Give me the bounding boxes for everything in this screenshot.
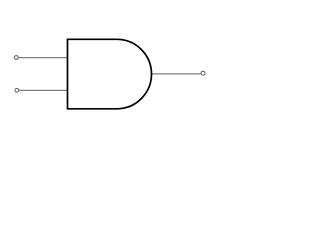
output terminal (201, 71, 205, 75)
wire input A (19, 57, 68, 59)
wire output (152, 73, 201, 75)
input terminal B (15, 88, 19, 92)
wire input B (19, 89, 67, 91)
input terminal A (14, 56, 18, 60)
AND gate (68, 39, 152, 109)
